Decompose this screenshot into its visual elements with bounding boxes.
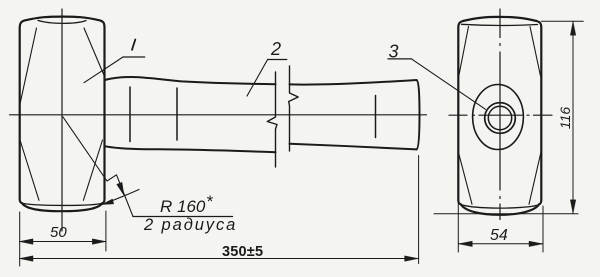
- svg-text:50: 50: [50, 224, 67, 241]
- handle top edge right segment: [290, 80, 417, 85]
- upper-right chamfer facet line: [84, 28, 104, 76]
- label 3 underline: [388, 58, 412, 60]
- label 2 leader: [247, 60, 268, 97]
- hammer head side view silhouette: [20, 17, 105, 212]
- end view lower-right chamfer line: [529, 152, 541, 204]
- dimension 50 left arrow: [19, 239, 33, 244]
- dimension 50 right extension line: [105, 211, 107, 251]
- eye wedge tick 2 on handle: [176, 88, 178, 140]
- handle horizontal centerline: [10, 114, 427, 116]
- dimension 116 top arrow: [570, 22, 575, 36]
- dimension 54 left extension line: [457, 203, 459, 252]
- end view upper-right chamfer line: [530, 27, 541, 77]
- R160 face extension arc: [102, 190, 139, 205]
- dimension 50 right arrow: [92, 239, 106, 244]
- handle end cap: [417, 80, 420, 149]
- svg-text:2 радиуса: 2 радиуса: [143, 216, 237, 234]
- svg-text:54: 54: [490, 227, 508, 244]
- end view upper-left chamfer line: [459, 27, 469, 77]
- dimension 350 line: [20, 258, 419, 260]
- svg-text:3: 3: [389, 42, 399, 62]
- handle bottom edge right segment: [290, 144, 417, 150]
- centerline continuation to end view (dash-dot): [449, 114, 552, 116]
- bottom striking face inner lens arc: [21, 203, 103, 206]
- dimension 50 left extension line: [19, 212, 21, 266]
- end view top face inner lens arc: [462, 24, 538, 25]
- end view lower-left chamfer line: [459, 153, 472, 204]
- R160 arrowhead on extension arc: [117, 183, 124, 195]
- dimension 350 right extension line: [418, 156, 420, 264]
- dimension 54 line: [458, 243, 543, 245]
- label 2 underline: [268, 59, 287, 61]
- dimension 116 bottom arrow: [570, 200, 575, 214]
- dimension 116 bottom extension line: [434, 213, 578, 215]
- R160 text underline: [133, 216, 233, 218]
- svg-text:R 160: R 160: [160, 197, 206, 216]
- break line right: [289, 66, 299, 151]
- dimension 116 top extension line: [541, 20, 583, 22]
- lower-right chamfer facet line: [83, 140, 102, 200]
- svg-text:350±5: 350±5: [222, 244, 263, 260]
- eye wedge tick 1 on handle: [129, 87, 131, 142]
- eye chamfer circle: [485, 103, 516, 134]
- upper-left chamfer facet line: [20, 28, 37, 104]
- label 1 underline: [123, 56, 145, 58]
- svg-text:2: 2: [270, 39, 281, 59]
- handle top edge left segment: [105, 77, 276, 84]
- hammer head end view silhouette: [458, 17, 541, 215]
- end view vertical centerline (dash-dot): [499, 9, 501, 220]
- eye boss ellipse: [473, 85, 524, 150]
- eye hole circle: [488, 106, 511, 129]
- end view bottom face inner lens arc: [460, 204, 541, 208]
- dimension 50 line: [20, 241, 106, 243]
- R160 leader polyline from head center to text: [63, 117, 133, 217]
- dimension 54 right arrow: [529, 241, 543, 246]
- dimension 116 line: [572, 21, 574, 214]
- dimension 54 left arrow: [459, 241, 473, 246]
- top striking face inner lens arc: [38, 20, 86, 23]
- tick on handle right portion: [375, 96, 377, 138]
- svg-text:116: 116: [557, 107, 573, 130]
- dimension 54 right extension line: [542, 206, 544, 252]
- break line left: [267, 72, 277, 167]
- dimension 350 right arrow: [405, 256, 419, 261]
- lower-left chamfer facet line: [20, 141, 39, 200]
- label 3 leader: [412, 59, 486, 109]
- head vertical centerline: [61, 9, 63, 231]
- handle bottom edge left segment: [105, 146, 276, 152]
- dimension 350 left arrow: [19, 256, 33, 261]
- label 1 digit stroke: [132, 40, 135, 50]
- svg-text:*: *: [206, 192, 214, 211]
- R160 second arrowhead at face: [102, 199, 114, 204]
- label 1 leader: [84, 57, 123, 83]
